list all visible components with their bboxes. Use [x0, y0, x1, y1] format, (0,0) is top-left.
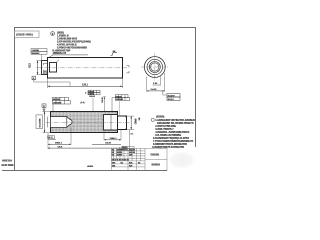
leader to boxed labels — [163, 91, 167, 95]
leader from pair B to lower view — [112, 98, 115, 112]
svg-text:HEBE: HEBE — [87, 166, 94, 168]
stacked tolerance labels left detail — [31, 49, 47, 55]
lower view knurled band — [51, 112, 118, 133]
svg-text:HBEBH: HBEBH — [2, 159, 12, 163]
svg-text:(4.1): (4.1) — [48, 136, 53, 139]
feature control frame pair A — [88, 90, 100, 95]
title block texts — [112, 150, 141, 168]
frame border bottom — [2, 170, 167, 172]
svg-text:E8B5B8: E8B5B8 — [53, 99, 60, 101]
frame border left — [14, 27, 16, 170]
svg-text:O5.8: O5.8 — [58, 146, 64, 148]
faint vertical ext above stub — [119, 101, 121, 116]
svg-text:O4.92: O4.92 — [89, 95, 96, 98]
svg-text:B8BEB: B8BEB — [152, 164, 161, 167]
left rotated dim with box — [36, 115, 42, 129]
notes balloon 3 — [51, 32, 55, 36]
dims below circle — [146, 77, 148, 92]
svg-text:O4.92: O4.92 — [105, 142, 112, 145]
right stub — [118, 116, 127, 130]
svg-text:B8BEB2: B8BEB2 — [32, 53, 41, 55]
svg-text:1.6B/8B: 1.6B/8B — [32, 50, 40, 52]
frame border right — [195, 27, 197, 147]
nested square inside body — [50, 63, 57, 73]
faint watermark — [168, 151, 196, 169]
datum letter box — [42, 104, 46, 107]
crossed box symbol under step — [43, 72, 46, 75]
svg-text:126.1: 126.1 — [82, 84, 89, 87]
svg-text:8O6.5: 8O6.5 — [168, 99, 175, 101]
right vertical dim — [130, 116, 132, 129]
stamp box top-left — [15, 31, 39, 37]
datum leader line — [34, 80, 70, 87]
svg-text:B8EB8: B8EB8 — [117, 155, 123, 157]
leader to part — [49, 55, 54, 58]
svg-text:8B: 8B — [113, 51, 116, 53]
top view left stub — [42, 61, 48, 75]
mid dim level — [47, 133, 49, 149]
lower view centerline — [46, 121, 131, 123]
title block — [111, 148, 167, 170]
circle centerlines — [141, 66, 169, 68]
two-row boxed label right of circle dims — [167, 94, 180, 101]
svg-text:8B: 8B — [139, 117, 141, 120]
notes list top — [57, 32, 91, 50]
blind hole slot (white) — [50, 117, 72, 128]
feature control frame pair B — [115, 95, 130, 101]
frame border top — [14, 27, 196, 29]
feature control frame pair C — [52, 97, 70, 104]
svg-text:O12: O12 — [29, 63, 32, 68]
small marks right of body — [127, 66, 130, 68]
circular end view — [144, 57, 165, 78]
svg-text:O8h6: O8h6 — [136, 118, 138, 124]
dim 10+-0.1 right — [103, 130, 105, 140]
technical notes block right — [152, 116, 195, 149]
datum symbol below step — [32, 76, 36, 80]
datum triangle on lower view — [43, 109, 45, 112]
top view centerline — [37, 67, 128, 69]
leader from pair C — [52, 104, 54, 112]
svg-text:8O4H7: 8O4H7 — [168, 94, 176, 97]
svg-text:A-A: A-A — [80, 100, 85, 104]
svg-text:O8B5BB: O8B5BB — [116, 99, 124, 101]
dimension 126.1 under top view — [47, 79, 49, 89]
dim label (4.1) boxed — [48, 136, 55, 139]
svg-text:O8.1B8E: O8.1B8E — [39, 118, 41, 128]
vertical dim left of step — [37, 61, 39, 75]
label leader vertical — [40, 55, 42, 61]
svg-text:A: A — [43, 105, 45, 108]
left vertical dim lines — [44, 112, 46, 133]
short dim line — [48, 139, 56, 141]
svg-text:EH8 NBE: EH8 NBE — [2, 163, 14, 167]
svg-text:E8B5B: E8B5B — [151, 152, 160, 156]
svg-text:10B0.1: 10B0.1 — [110, 138, 118, 140]
small two-row box right of dims — [122, 147, 135, 151]
svg-text:(EB8E-HRB): (EB8E-HRB) — [16, 33, 33, 37]
top view body — [48, 58, 123, 79]
bracket marks in stub — [44, 63, 48, 65]
svg-text:A: A — [33, 76, 35, 80]
svg-text:O8B5B88: O8B5B88 — [53, 103, 61, 105]
svg-text:O4.92: O4.92 — [101, 96, 104, 103]
chamfer diagonal — [56, 60, 59, 63]
svg-text:E8B5B: E8B5B — [116, 96, 122, 98]
bore window (white) — [104, 115, 118, 131]
svg-text:58B0.1: 58B0.1 — [55, 143, 63, 145]
surface finish symbol top right — [111, 52, 118, 55]
svg-text:8B 5B B 8B EB 8E B5: 8B 5B B 8B EB 8E B5 — [112, 160, 129, 162]
bottom long dim — [129, 130, 131, 149]
